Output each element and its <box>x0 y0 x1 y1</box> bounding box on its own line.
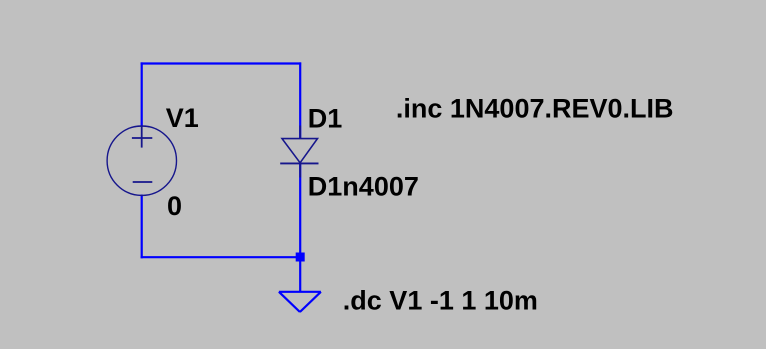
svg-text:D1: D1 <box>308 104 343 134</box>
svg-text:D1n4007: D1n4007 <box>308 172 419 202</box>
junction node (bottom right) <box>296 253 305 262</box>
svg-text:0: 0 <box>167 191 182 221</box>
ground symbol <box>279 292 321 312</box>
wire right upper segment (to D1 anode) <box>299 62 301 139</box>
wire left upper segment (to V1 top pin) <box>141 62 143 127</box>
wire top segment <box>141 62 302 64</box>
wire right lower segment (D1 cathode to ground) <box>299 164 301 292</box>
voltage source V1 (circle with plus/minus) <box>107 126 176 195</box>
diode D1 (triangle + cathode bar) <box>280 126 318 178</box>
svg-text:V1: V1 <box>166 103 199 133</box>
svg-text:.dc V1 -1 1 10m: .dc V1 -1 1 10m <box>343 286 538 316</box>
svg-text:.inc 1N4007.REV0.LIB: .inc 1N4007.REV0.LIB <box>396 94 674 124</box>
wire left lower segment (V1 bottom pin to bottom wire) <box>141 195 143 259</box>
wire bottom segment <box>141 256 300 258</box>
